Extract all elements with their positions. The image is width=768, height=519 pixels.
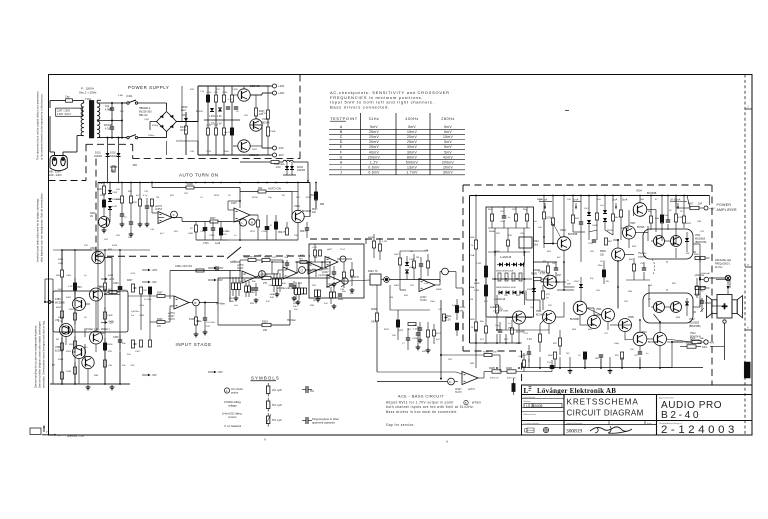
svg-text:0.5A: 0.5A (108, 108, 113, 111)
svg-text:WC559B: WC559B (55, 301, 65, 304)
svg-text:LF347: LF347 (420, 297, 427, 299)
svg-text:Bass drivers connected.: Bass drivers connected. (330, 104, 390, 109)
svg-text:V507: V507 (630, 222, 636, 225)
svg-text:µA77: µA77 (327, 248, 333, 251)
svg-text:C12B: C12B (261, 231, 267, 233)
svg-text:Adjust RV11 for 1.70V output i: Adjust RV11 for 1.70V output in point (386, 401, 454, 405)
svg-text:LF353: LF353 (155, 208, 162, 211)
svg-text:0R0B 2N3904 100B: 0R0B 2N3904 100B (496, 287, 516, 289)
svg-text:P16B: P16B (270, 131, 276, 133)
svg-text:C42B: C42B (412, 338, 418, 340)
svg-text:KRETSSCHEMA: KRETSSCHEMA (567, 398, 639, 407)
svg-text:POWER: POWER (717, 203, 732, 207)
svg-text:or its contents thereof not be: or its contents thereof not be imparted … (40, 94, 44, 160)
svg-text:22K: 22K (184, 193, 188, 195)
svg-text:µA?TA: µA?TA (168, 312, 175, 315)
svg-text:4.7µF: 4.7µF (105, 128, 112, 130)
svg-text:+15V: +15V (108, 278, 114, 281)
svg-text:R40B: R40B (368, 237, 374, 239)
svg-text:D: D (340, 140, 343, 144)
svg-text:1mA: 1mA (573, 198, 579, 202)
svg-text:V501: V501 (536, 311, 542, 313)
svg-text:300819: 300819 (566, 429, 582, 435)
svg-text:R307: R307 (127, 280, 133, 282)
svg-text:+40V: +40V (709, 208, 715, 211)
svg-text:R30T: R30T (157, 292, 163, 294)
svg-text:20-25mA: 20-25mA (670, 198, 681, 202)
svg-text:22K: 22K (84, 245, 88, 247)
svg-text:R422: R422 (398, 330, 404, 332)
svg-text:R50B: R50B (531, 274, 537, 276)
svg-text:47k5 1%: 47k5 1% (507, 378, 516, 380)
svg-text:C511: C511 (588, 243, 594, 245)
svg-text:27K: 27K (263, 282, 268, 285)
svg-text:K31B: K31B (189, 319, 195, 321)
svg-text:20mV: 20mV (407, 135, 417, 139)
svg-text:15V: 15V (214, 92, 218, 94)
svg-text:LF347: LF347 (168, 316, 175, 318)
svg-text:10K: 10K (143, 290, 147, 292)
svg-text:10K: 10K (244, 115, 248, 117)
svg-text:R31B: R31B (107, 344, 113, 346)
svg-text:C: C (340, 135, 343, 139)
svg-text:40K: 40K (282, 283, 286, 285)
svg-text:1.7mV: 1.7mV (406, 170, 418, 174)
svg-text:M ohm: M ohm (715, 266, 722, 269)
svg-text:-15V: -15V (151, 374, 157, 377)
svg-text:R202: R202 (100, 195, 106, 197)
svg-text:SYMBOLS: SYMBOLS (251, 376, 280, 381)
svg-text:D: D (449, 380, 451, 384)
svg-text:C160: C160 (222, 92, 228, 94)
svg-text:10R: 10R (697, 221, 701, 223)
svg-text:4k07: 4k07 (436, 333, 442, 335)
svg-text:R40B: R40B (436, 289, 442, 291)
svg-text:R0A: R0A (270, 293, 275, 296)
svg-text:2-124003: 2-124003 (661, 424, 738, 436)
svg-text:X: X (58, 433, 60, 437)
svg-text:1µ/100n: 1µ/100n (131, 311, 140, 313)
svg-text:1M: 1M (156, 197, 159, 199)
svg-text:2N: 2N (90, 216, 93, 218)
svg-text:2M: 2M (416, 257, 419, 259)
svg-text:16K: 16K (493, 352, 497, 354)
svg-text:Scale: Scale (647, 423, 652, 425)
svg-text:2.6AT / 110 F: 2.6AT / 110 F (57, 113, 72, 116)
svg-text:BC546: BC546 (637, 226, 645, 229)
svg-text:2% ¹⁄₈W: 2% ¹⁄₈W (272, 388, 282, 392)
svg-text:Copied Material: Copied Material (523, 396, 536, 399)
svg-text:R50B: R50B (474, 283, 480, 285)
svg-text:47K: 47K (266, 301, 270, 303)
svg-text:100n: 100n (702, 347, 708, 349)
svg-text:J: J (340, 170, 342, 174)
svg-text:BC546B: BC546B (647, 192, 657, 195)
svg-text:HP: HP (313, 300, 317, 302)
svg-text:C303: C303 (113, 283, 119, 285)
svg-text:R00A: R00A (264, 256, 270, 259)
svg-text:R41B.7K: R41B.7K (350, 277, 360, 279)
svg-text:2.2K: 2.2K (446, 319, 451, 321)
svg-text:1M: 1M (390, 297, 393, 299)
svg-text:240K: 240K (371, 322, 377, 324)
svg-text:1N4004: 1N4004 (109, 156, 118, 158)
svg-text:47R: 47R (499, 309, 503, 311)
svg-text:1.2K: 1.2K (68, 286, 73, 288)
svg-text:0.6mV: 0.6mV (368, 165, 380, 169)
svg-text:R401: R401 (394, 285, 400, 287)
svg-text:100K: 100K (188, 233, 194, 235)
svg-text:Utfardare: Utfardare (523, 400, 531, 403)
svg-text:R42B: R42B (371, 309, 377, 311)
svg-text:R44B: R44B (506, 368, 512, 370)
svg-text:-15V: -15V (217, 371, 223, 374)
svg-text:HP-filter ( 40 - 300Hz ): HP-filter ( 40 - 300Hz ) (84, 327, 110, 331)
svg-text:22K: 22K (448, 359, 452, 361)
svg-text:47K: 47K (350, 293, 354, 295)
svg-text:X: X (666, 288, 668, 292)
svg-text:R30T: R30T (66, 297, 72, 299)
svg-text:C5j: C5j (552, 263, 556, 265)
svg-text:Godkand Datum: Godkand Datum (523, 413, 537, 416)
svg-text:A: A (226, 389, 228, 393)
svg-text:R5T: R5T (504, 339, 509, 341)
svg-text:V302: V302 (294, 205, 300, 208)
svg-text:A: A (446, 440, 448, 444)
svg-text:AUTO-ON: AUTO-ON (268, 187, 281, 191)
svg-text:10K: 10K (538, 227, 542, 229)
svg-text:F50B: F50B (686, 343, 692, 345)
svg-text:30mV: 30mV (369, 140, 379, 144)
svg-text:47R: 47R (678, 217, 682, 219)
svg-text:HP-filter: HP-filter (287, 319, 296, 322)
svg-text:2N?: 2N? (557, 275, 562, 277)
svg-text:Approved 71-83: Approved 71-83 (67, 435, 85, 438)
svg-text:100p: 100p (614, 343, 620, 345)
svg-text:2.2M: 2.2M (474, 290, 479, 292)
svg-text:Denna handling far ej utan var: Denna handling far ej utan var medgivand… (34, 325, 38, 388)
svg-text:R/C42B: R/C42B (104, 125, 113, 127)
svg-text:R5m: R5m (598, 265, 603, 267)
svg-text:C5f: C5f (500, 211, 504, 213)
svg-text:100K: 100K (229, 301, 235, 303)
svg-text:5% ¹⁄₂W: 5% ¹⁄₂W (272, 418, 282, 422)
svg-text:15K: 15K (600, 254, 605, 256)
svg-text:R51?: R51? (490, 307, 496, 309)
svg-text:5mV: 5mV (370, 125, 378, 129)
svg-text:R10T: R10T (252, 149, 258, 151)
svg-text:C50?: C50? (500, 221, 506, 223)
svg-text:C10B: C10B (209, 235, 215, 237)
svg-text:ACE - BASS CIRCUIT: ACE - BASS CIRCUIT (398, 395, 444, 399)
svg-text:200mV: 200mV (368, 155, 381, 159)
svg-text:C151: C151 (206, 151, 212, 153)
svg-text:approved capacitor: approved capacitor (312, 420, 335, 424)
svg-text:RV11: RV11 (446, 316, 452, 318)
svg-text:H: H (340, 160, 343, 164)
svg-text:R50-75: R50-75 (300, 231, 308, 233)
svg-text:500mV: 500mV (406, 160, 419, 164)
svg-text:4.7µ: 4.7µ (143, 195, 148, 197)
svg-text:10K: 10K (392, 335, 396, 337)
svg-text:Sec.2 + 25Hz: Sec.2 + 25Hz (79, 91, 97, 95)
svg-text:when: when (472, 401, 481, 405)
svg-text:40K: 40K (270, 297, 274, 299)
svg-text:R5A: R5A (470, 286, 475, 289)
svg-text:30K: 30K (99, 183, 103, 185)
svg-text:D40?: D40? (394, 254, 400, 256)
svg-text:CT01: CT01 (203, 243, 209, 245)
svg-text:27K: 27K (157, 326, 162, 328)
svg-text:INPUT STAGE: INPUT STAGE (176, 342, 212, 347)
svg-text:This document must not be copi: This document must not be copied without… (36, 91, 40, 160)
svg-text:R52D: R52D (600, 251, 606, 253)
svg-text:C2+100n: C2+100n (206, 322, 216, 324)
svg-text:R313: R313 (58, 359, 64, 361)
svg-text:+15V: +15V (139, 305, 145, 307)
svg-text:BC546B: BC546B (536, 314, 545, 316)
svg-text:X; on heatsink: X; on heatsink (224, 424, 242, 428)
svg-text:R311: R311 (66, 351, 72, 353)
svg-text:µA774: µA774 (468, 388, 475, 391)
svg-text:20K: 20K (312, 285, 316, 287)
svg-text:C50A: C50A (533, 240, 539, 243)
svg-text:-15V: -15V (151, 281, 157, 284)
svg-text:Den far ej heller delgivas ann: Den far ej heller delgivas annan eller e… (38, 321, 42, 388)
svg-text:25mV: 25mV (369, 130, 379, 134)
svg-text:C512: C512 (600, 261, 606, 263)
svg-text:Polypropylene or other: Polypropylene or other (312, 417, 339, 421)
svg-text:-15V: -15V (108, 322, 114, 325)
svg-text:2200µ: 2200µ (148, 135, 155, 137)
svg-text:1µ16: 1µ16 (215, 243, 221, 245)
svg-text:TL064: TL064 (420, 300, 427, 302)
svg-text:R50A: R50A (489, 230, 495, 233)
svg-text:1.25V / 1.0V: 1.25V / 1.0V (209, 124, 222, 126)
svg-text:100n: 100n (430, 301, 436, 303)
svg-text:15mV: 15mV (443, 135, 453, 139)
svg-text:KBL-02: KBL-02 (139, 114, 148, 117)
svg-text:AMPLIFIER: AMPLIFIER (717, 208, 738, 212)
svg-text:5.1M: 5.1M (382, 241, 387, 243)
svg-text:1.5V: 1.5V (228, 99, 233, 101)
svg-text:30mV: 30mV (407, 145, 417, 149)
svg-text:V306: V306 (99, 333, 105, 335)
svg-text:Thermo-: Thermo- (638, 252, 647, 255)
svg-text:0,4mA DC-Idling: 0,4mA DC-Idling (222, 412, 242, 416)
svg-text:CkO?: CkO? (584, 208, 590, 210)
svg-text:-40V: -40V (709, 342, 714, 345)
svg-text:BC546B: BC546B (570, 318, 579, 321)
svg-text:1M: 1M (470, 299, 473, 301)
svg-text:R09T: R09T (312, 209, 318, 211)
svg-text:B2-40: B2-40 (661, 410, 701, 421)
svg-text:5mV: 5mV (444, 125, 452, 129)
svg-text:1.2V: 1.2V (370, 160, 379, 164)
svg-text:25mV: 25mV (407, 140, 417, 144)
svg-text:C4p: C4p (105, 106, 110, 108)
svg-text:40mV: 40mV (369, 150, 379, 154)
svg-text:20K: 20K (263, 329, 268, 332)
svg-text:4.7R: 4.7R (540, 274, 545, 276)
svg-text:200mV: 200mV (442, 160, 455, 164)
svg-text:68K: 68K (460, 310, 464, 312)
svg-text:FREQ≥2000 1: FREQ≥2000 1 (715, 263, 731, 266)
svg-text:BC546B: BC546B (568, 233, 578, 236)
svg-text:(BDW46): (BDW46) (690, 339, 700, 342)
svg-text:C5A: C5A (470, 254, 475, 257)
svg-text:V504: V504 (636, 190, 642, 193)
svg-text:R302: R302 (157, 319, 163, 321)
svg-text:POWER SUPPLY: POWER SUPPLY (128, 85, 169, 90)
svg-text:C30B: C30B (107, 315, 113, 317)
svg-text:25mV: 25mV (369, 145, 379, 149)
svg-text:R3z: R3z (342, 291, 346, 293)
svg-text:eller kopieras utan vart medgi: eller kopieras utan vart medgivande. Rat… (40, 192, 44, 262)
svg-text:C30?: C30? (135, 351, 141, 353)
svg-text:1m: 1m (131, 315, 134, 317)
svg-text:R43B: R43B (483, 352, 489, 354)
svg-text:-15V: -15V (130, 365, 135, 367)
svg-text:anvandas. Overtradelse harav b: anvandas. Overtradelse harav bivragas me… (42, 320, 46, 388)
svg-text:D50?: D50? (574, 281, 580, 283)
svg-text:0R0B 0R1B 100R: 0R0B 0R1B 100R (496, 271, 514, 273)
svg-text:BC556B: BC556B (249, 153, 259, 157)
svg-text:K: K (173, 213, 175, 217)
svg-text:D50B: D50B (527, 289, 533, 291)
svg-text:µA77b: µA77b (237, 264, 244, 267)
svg-text:C150: C150 (206, 92, 212, 94)
svg-text:47k5 1%: 47k5 1% (490, 378, 499, 380)
svg-text:80mV: 80mV (407, 155, 417, 159)
svg-text:R21B: R21B (252, 197, 258, 199)
svg-text:Innehall samt detta dokument f: Innehall samt detta dokument far ej delg… (36, 198, 40, 262)
svg-text:Lövånger Elektronik AB: Lövånger Elektronik AB (537, 387, 616, 395)
svg-text:24.F: 24.F (276, 166, 281, 169)
svg-text:22K: 22K (548, 305, 552, 307)
svg-text:2.2M: 2.2M (476, 263, 481, 265)
svg-text:R220: R220 (306, 197, 312, 199)
svg-text:0.3A: 0.3A (118, 94, 123, 97)
svg-text:10K: 10K (258, 255, 262, 257)
svg-text:R500: R500 (537, 199, 543, 201)
svg-text:C51?: C51? (522, 355, 528, 357)
svg-text:R304: R304 (108, 275, 114, 277)
svg-text:CIRCUIT DIAGRAM: CIRCUIT DIAGRAM (567, 409, 644, 418)
svg-text:C20?: C20? (231, 202, 237, 205)
svg-text:voltage: voltage (228, 403, 237, 407)
svg-text:C5l: C5l (640, 263, 644, 265)
svg-text:TESTPOINT: TESTPOINT (330, 116, 358, 121)
svg-text:0,5VDC-Idling: 0,5VDC-Idling (224, 400, 241, 404)
svg-text:1N4005: 1N4005 (297, 170, 306, 172)
svg-text:KD41: KD41 (297, 166, 304, 169)
svg-text:R56?: R56? (694, 254, 700, 256)
svg-text:points: points (231, 390, 239, 394)
svg-text:BD140: BD140 (262, 121, 270, 124)
svg-text:20K: 20K (293, 306, 297, 308)
svg-text:V512: V512 (690, 332, 696, 335)
svg-text:100n: 100n (533, 244, 539, 246)
svg-text:R20B: R20B (187, 184, 193, 186)
svg-text:10K: 10K (198, 321, 202, 323)
svg-text:R5i: R5i (543, 261, 547, 263)
svg-text:47K: 47K (296, 197, 300, 199)
svg-text:13mV: 13mV (407, 165, 417, 169)
svg-text:1.02n: 1.02n (413, 328, 419, 330)
svg-text:1 st angle projection: 1 st angle projection (523, 422, 539, 425)
svg-text:C162: C162 (112, 192, 118, 194)
svg-text:1.2V: 1.2V (527, 339, 532, 341)
svg-text:10K: 10K (567, 199, 571, 201)
svg-text:0V65: 0V65 (112, 245, 118, 247)
svg-text:C10B: C10B (232, 89, 238, 91)
svg-text:R50B: R50B (469, 319, 475, 321)
svg-text:G: G (340, 155, 343, 159)
svg-text:R24: R24 (258, 188, 263, 190)
svg-text:R203: R203 (116, 199, 122, 201)
svg-text:10K: 10K (116, 189, 120, 191)
svg-text:+15V: +15V (151, 269, 157, 272)
svg-text:V: V (264, 438, 266, 442)
svg-text:C50B: C50B (705, 303, 711, 305)
svg-text:BC546: BC546 (196, 111, 203, 113)
svg-text:30mV: 30mV (443, 170, 453, 174)
svg-text:R54?: R54? (548, 355, 554, 357)
svg-text:20mV: 20mV (443, 165, 453, 169)
svg-text:33.2K: 33.2K (180, 129, 187, 132)
svg-text:+40V: +40V (278, 84, 285, 88)
svg-text:V50B: V50B (628, 317, 634, 319)
svg-text:1.25V / 1.0V: 1.25V / 1.0V (209, 116, 222, 118)
svg-text:1N4004: 1N4004 (94, 156, 103, 158)
svg-text:B: B (195, 301, 197, 305)
svg-text:AC,check-: AC,check- (231, 387, 244, 391)
svg-text:2AF: 2AF (697, 342, 702, 345)
svg-text:R40A .7K: R40A .7K (368, 270, 378, 273)
svg-text:KM305: KM305 (110, 167, 118, 169)
svg-text:2412s: 2412s (122, 290, 129, 292)
svg-text:100n: 100n (224, 151, 230, 153)
svg-text:0R22: 0R22 (686, 223, 692, 225)
svg-text:C0B: C0B (284, 257, 289, 259)
svg-text:both channel inputs are fed wi: both channel inputs are fed with 5mV at … (386, 405, 474, 409)
svg-text:HP-filter: HP-filter (216, 303, 225, 306)
svg-text:Approved No Rev?: Approved No Rev? (659, 396, 674, 399)
svg-text:150R: 150R (66, 371, 72, 373)
svg-text:+15V: +15V (130, 273, 136, 275)
svg-text:280Hz: 280Hz (441, 117, 454, 121)
svg-text:(BDW47B): (BDW47B) (695, 241, 707, 244)
svg-text:5% ¹⁄₈W: 5% ¹⁄₈W (272, 403, 282, 407)
svg-text:V510: V510 (641, 331, 647, 334)
svg-text:T10T: T10T (262, 113, 268, 115)
svg-text:LS 800408: LS 800408 (526, 404, 543, 408)
svg-text:R50B: R50B (469, 237, 475, 239)
svg-text:5%: 5% (310, 389, 314, 393)
svg-text:220 - 240V: 220 - 240V (49, 173, 62, 177)
svg-text:+15V: +15V (312, 247, 318, 249)
svg-text:HB - 125V: HB - 125V (49, 170, 61, 174)
svg-text:AUTO TURN ON: AUTO TURN ON (179, 173, 219, 178)
svg-text:-15V: -15V (278, 146, 284, 150)
svg-text:30mV: 30mV (407, 150, 417, 154)
svg-text:D102: D102 (110, 152, 116, 155)
svg-text:LL4P: LL4P (112, 206, 118, 208)
svg-text:R0T: R0T (299, 259, 304, 261)
svg-text:S200: S200 (90, 213, 96, 215)
svg-text:15mV: 15mV (407, 130, 417, 134)
